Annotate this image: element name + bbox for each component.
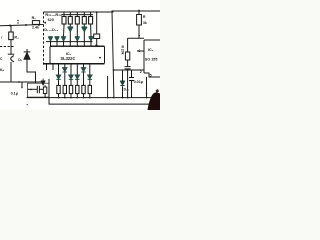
svg-text:R₂₁—R₂₈: R₂₁—R₂₈: [45, 12, 62, 17]
svg-text:R₂: R₂: [32, 16, 37, 20]
svg-text:2: 2: [140, 70, 142, 74]
svg-text:D₁₁–D₁₄: D₁₁–D₁₄: [44, 28, 58, 32]
svg-text:7: 7: [138, 35, 140, 39]
svg-text:R 20k: R 20k: [120, 46, 124, 55]
svg-text:620: 620: [48, 18, 54, 22]
svg-text:SO 155: SO 155: [145, 58, 158, 62]
svg-text:D₁: D₁: [18, 58, 23, 62]
svg-text:SL322C: SL322C: [60, 56, 75, 61]
svg-text:0.1μ: 0.1μ: [11, 91, 19, 95]
svg-text:a: a: [38, 23, 40, 27]
svg-text:R₄: R₄: [14, 35, 19, 39]
svg-text:5: 5: [150, 73, 152, 77]
svg-text:D₁₅: D₁₅: [124, 88, 130, 92]
svg-text:ln: ln: [95, 44, 98, 48]
svg-text:Kₚ: Kₚ: [0, 68, 5, 72]
svg-text:3k: 3k: [143, 21, 147, 25]
svg-text:0.01μ: 0.01μ: [134, 80, 144, 84]
svg-text:IC₂: IC₂: [148, 48, 154, 52]
svg-text:6: 6: [138, 49, 140, 53]
